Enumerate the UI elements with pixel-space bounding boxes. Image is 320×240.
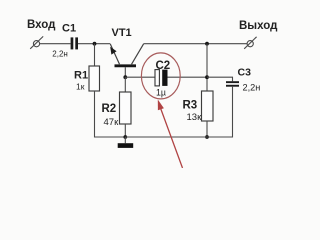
svg-text:1к: 1к bbox=[76, 82, 85, 92]
wire junction to C3 bbox=[207, 77, 233, 81]
svg-text:13к: 13к bbox=[187, 112, 203, 123]
output terminal bbox=[244, 37, 256, 49]
svg-text:R1: R1 bbox=[74, 69, 88, 81]
svg-text:C3: C3 bbox=[238, 66, 252, 78]
wire node to R1 bbox=[94, 44, 96, 66]
wire base to C2 bbox=[125, 76, 155, 78]
transistor VT1 collector bbox=[132, 44, 144, 65]
capacitor C2 positive plate bbox=[162, 70, 167, 86]
svg-text:Выход: Выход bbox=[239, 20, 278, 32]
wire R2 top lead bbox=[124, 77, 126, 92]
node top R3 branch bbox=[205, 42, 209, 46]
resistor R2 bbox=[120, 92, 132, 124]
svg-text:2,2н: 2,2н bbox=[52, 50, 68, 59]
capacitor C2 negative plate bbox=[155, 70, 159, 86]
wire input to C1 bbox=[40, 43, 71, 45]
svg-text:1µ: 1µ bbox=[156, 88, 166, 98]
svg-text:VT1: VT1 bbox=[112, 27, 132, 39]
bottom rail wire bbox=[125, 136, 232, 138]
capacitor C3 bbox=[226, 81, 239, 87]
wire R1 to bottom rail bbox=[95, 91, 126, 137]
resistor R3 bbox=[202, 91, 214, 121]
ground bbox=[118, 143, 134, 148]
annotation red arrow line bbox=[160, 108, 182, 169]
svg-text:C1: C1 bbox=[62, 22, 76, 34]
wire collector to output bbox=[144, 43, 247, 45]
transistor VT1 emitter arrow bbox=[110, 47, 116, 55]
node C2 R3 C3 junction bbox=[205, 75, 209, 79]
wire C1 to emitter bbox=[78, 43, 110, 45]
transistor VT1 emitter bbox=[110, 44, 119, 64]
transistor VT1 base lead bbox=[124, 67, 126, 77]
svg-text:R3: R3 bbox=[183, 99, 198, 111]
svg-text:R2: R2 bbox=[102, 103, 117, 115]
wire C2 to R3 line bbox=[168, 76, 208, 78]
transistor VT1 base bar bbox=[115, 64, 137, 67]
node base junction bbox=[123, 75, 127, 79]
wire C3 to bottom rail bbox=[207, 87, 233, 137]
annotation red ellipse around C2 bbox=[141, 53, 180, 99]
wire R3 to bottom rail bbox=[206, 121, 208, 137]
annotation red arrow head bbox=[158, 100, 164, 111]
wire R2 to bottom rail bbox=[124, 124, 126, 137]
svg-text:Вход: Вход bbox=[27, 19, 56, 31]
input terminal bbox=[30, 36, 43, 48]
ground stub bbox=[124, 137, 126, 143]
wire top to R3 bbox=[206, 44, 208, 91]
svg-text:47к: 47к bbox=[104, 117, 120, 128]
node R3 bottom bbox=[205, 135, 209, 139]
svg-text:2,2н: 2,2н bbox=[243, 83, 261, 93]
node R2 bottom bbox=[123, 135, 127, 139]
resistor R1 bbox=[89, 66, 100, 91]
node R1 top bbox=[93, 42, 97, 46]
capacitor C1 bbox=[71, 37, 78, 49]
